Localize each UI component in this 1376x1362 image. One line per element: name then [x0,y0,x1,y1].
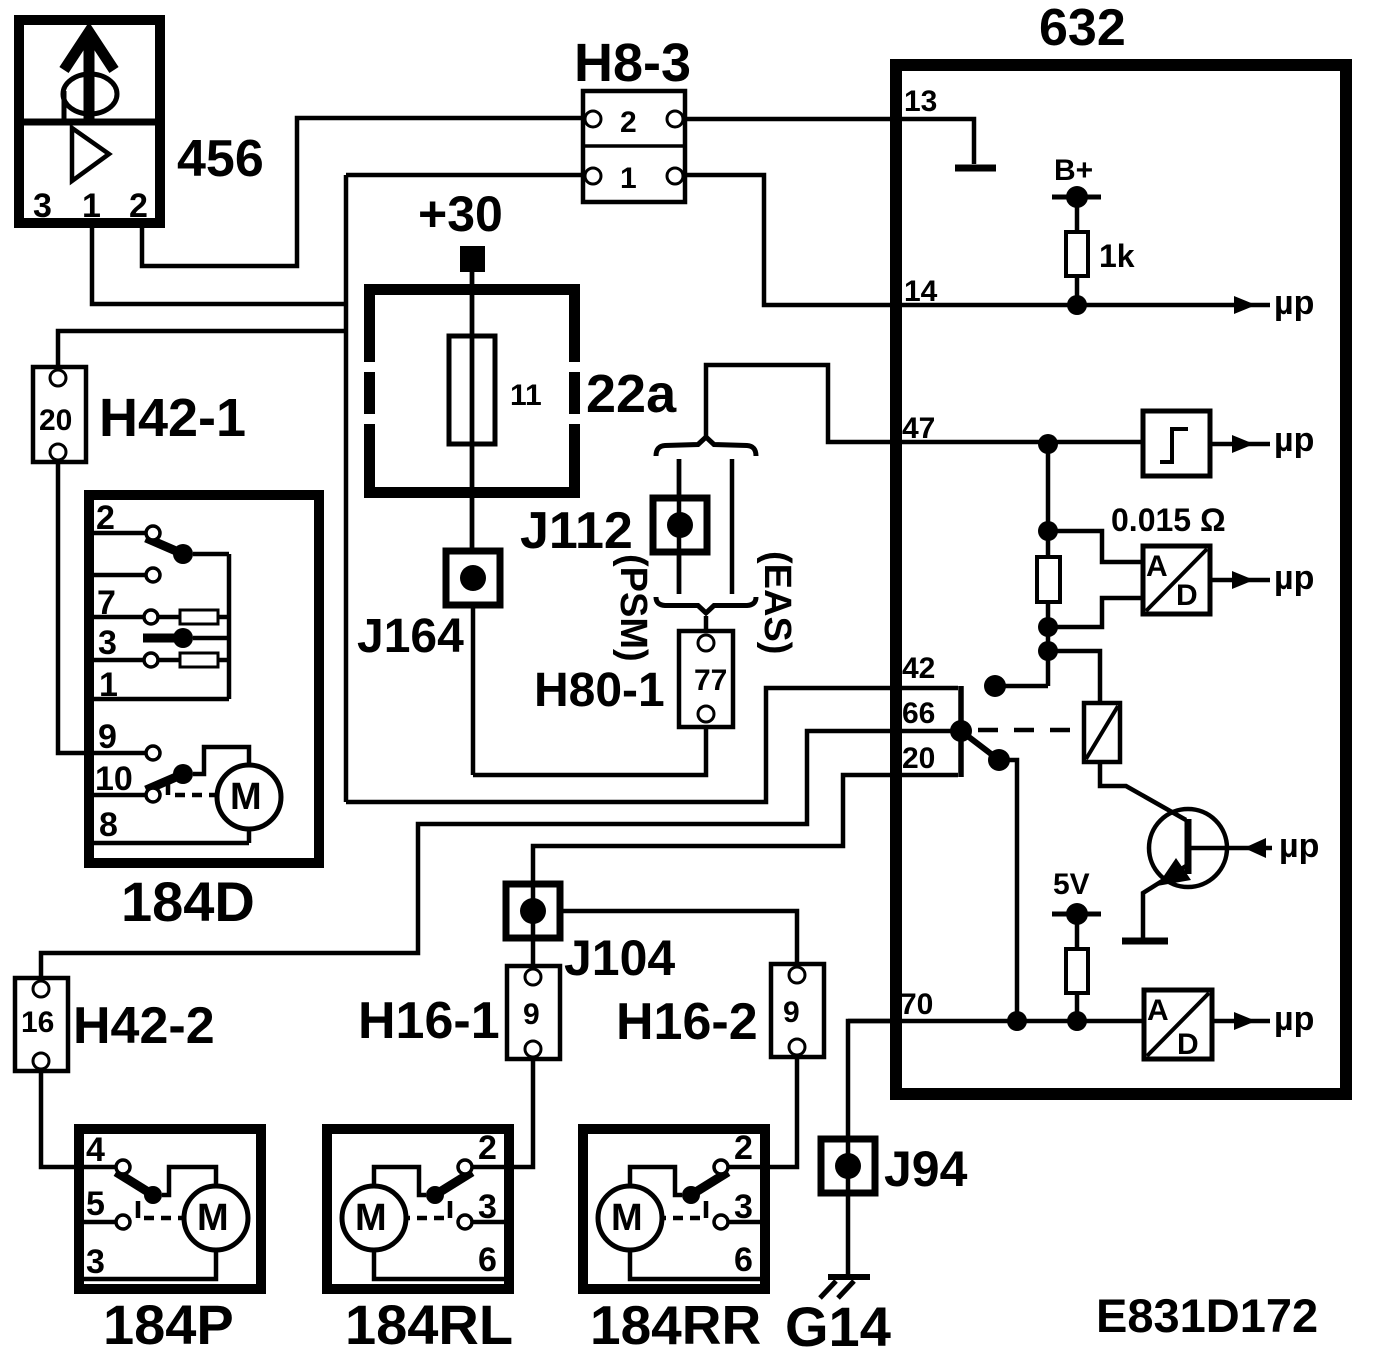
svg-text:A: A [1146,550,1168,583]
svg-text:J112: J112 [520,502,633,560]
svg-text:47: 47 [902,412,935,445]
svg-text:(PSM): (PSM) [612,554,654,662]
svg-text:M: M [197,1197,229,1239]
svg-text:456: 456 [177,130,264,188]
svg-text:3: 3 [478,1188,497,1226]
svg-text:B+: B+ [1054,154,1093,187]
svg-text:2: 2 [620,106,637,139]
svg-text:6: 6 [478,1241,497,1279]
svg-text:2: 2 [129,187,148,225]
svg-text:42: 42 [902,652,935,685]
svg-text:0.015 Ω: 0.015 Ω [1111,502,1226,538]
svg-text:D: D [1176,579,1198,612]
svg-text:3: 3 [734,1188,753,1226]
svg-text:14: 14 [904,275,938,308]
svg-text:µp: µp [1274,1000,1314,1038]
svg-text:µp: µp [1279,827,1319,865]
svg-text:1k: 1k [1099,238,1135,274]
svg-text:1: 1 [82,187,101,225]
svg-text:77: 77 [694,664,727,697]
svg-text:J164: J164 [357,610,464,663]
svg-text:2: 2 [734,1129,753,1167]
svg-text:10: 10 [95,760,133,798]
svg-text:13: 13 [904,85,937,118]
svg-text:3: 3 [86,1243,105,1281]
svg-text:M: M [230,776,262,818]
svg-text:4: 4 [86,1131,105,1169]
svg-text:184RR: 184RR [590,1294,761,1356]
svg-text:20: 20 [902,742,935,775]
svg-text:J94: J94 [884,1141,968,1197]
svg-text:6: 6 [734,1241,753,1279]
svg-text:66: 66 [902,697,935,730]
svg-text:D: D [1177,1028,1199,1061]
svg-text:9: 9 [98,718,117,756]
svg-text:184D: 184D [121,870,255,933]
svg-text:2: 2 [96,499,115,537]
svg-text:8: 8 [99,806,118,844]
svg-text:M: M [611,1197,643,1239]
svg-text:(EAS): (EAS) [756,551,798,654]
svg-text:16: 16 [21,1006,54,1039]
svg-text:H16-2: H16-2 [616,993,758,1051]
svg-text:9: 9 [523,998,540,1031]
svg-text:H42-1: H42-1 [99,388,246,448]
svg-text:µp: µp [1274,559,1314,597]
svg-text:20: 20 [39,404,72,437]
svg-text:H8-3: H8-3 [574,33,691,93]
svg-text:3: 3 [98,624,117,662]
svg-text:22a: 22a [586,364,677,424]
svg-text:H16-1: H16-1 [358,992,500,1050]
svg-text:J104: J104 [564,930,675,986]
svg-text:7: 7 [97,584,116,622]
svg-text:A: A [1147,994,1169,1027]
svg-text:H80-1: H80-1 [534,664,665,717]
svg-text:µp: µp [1274,421,1314,459]
svg-text:70: 70 [900,988,933,1021]
svg-text:3: 3 [33,187,52,225]
svg-text:9: 9 [783,996,800,1029]
svg-text:H42-2: H42-2 [73,997,215,1055]
svg-text:E831D172: E831D172 [1096,1289,1318,1342]
svg-text:11: 11 [510,379,542,412]
svg-text:1: 1 [99,666,118,704]
svg-text:G14: G14 [785,1295,891,1358]
svg-text:184P: 184P [103,1293,234,1356]
svg-text:2: 2 [478,1129,497,1167]
svg-text:M: M [355,1197,387,1239]
svg-text:184RL: 184RL [345,1293,513,1356]
svg-text:1: 1 [620,162,637,195]
svg-text:5V: 5V [1053,868,1090,901]
svg-text:+30: +30 [418,186,503,242]
svg-text:µp: µp [1274,284,1314,322]
svg-text:5: 5 [86,1185,105,1223]
svg-text:632: 632 [1039,0,1126,57]
